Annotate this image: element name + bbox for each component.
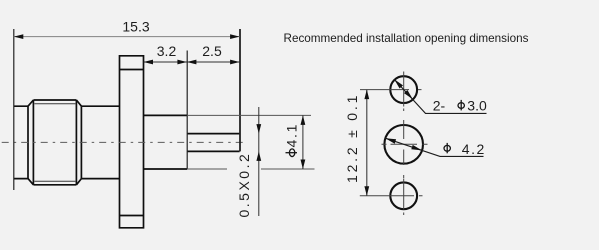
svg-text:3.2: 3.2 <box>157 43 177 59</box>
svg-text:4.1: 4.1 <box>284 123 300 148</box>
svg-text:0.5X0.2: 0.5X0.2 <box>236 152 252 218</box>
svg-text:2.5: 2.5 <box>202 43 222 59</box>
svg-text:3.0: 3.0 <box>467 98 487 114</box>
svg-text:Recommended installation openi: Recommended installation opening dimensi… <box>284 32 529 45</box>
svg-text:2-: 2- <box>433 98 446 114</box>
svg-text:12.2 ± 0.1: 12.2 ± 0.1 <box>344 93 360 183</box>
svg-text:4.2: 4.2 <box>462 141 486 157</box>
svg-text:15.3: 15.3 <box>122 19 149 35</box>
